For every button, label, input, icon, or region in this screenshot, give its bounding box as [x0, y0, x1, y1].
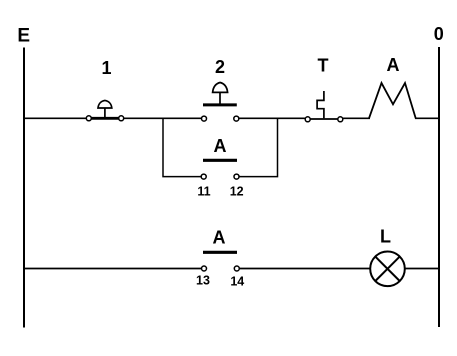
svg-text:A: A [213, 228, 226, 248]
svg-text:11: 11 [197, 185, 210, 199]
switch T (NC with stepped actuator) [305, 91, 343, 122]
wire switch T to coil A [343, 117, 370, 119]
wire branch up right (node before switch T) [240, 118, 278, 176]
left rail E [23, 48, 25, 328]
wire branch down left (node after contact 1) [163, 118, 203, 176]
right rail 0 [438, 47, 440, 327]
wire rung1 left rail to contact 1 [23, 117, 87, 119]
pushbutton 2 (NO, mushroom actuator) [202, 83, 239, 122]
svg-text:13: 13 [196, 274, 210, 288]
wire contact 2 to switch T [239, 117, 306, 119]
svg-text:T: T [318, 56, 329, 76]
wire lamp to right rail [405, 268, 440, 270]
svg-text:L: L [380, 227, 391, 247]
wire contact A 13-14 to lamp [240, 268, 372, 270]
svg-text:A: A [387, 55, 400, 75]
svg-text:12: 12 [230, 185, 244, 199]
svg-text:2: 2 [215, 57, 225, 77]
relay coil A (zigzag) [369, 83, 416, 118]
svg-text:14: 14 [230, 275, 244, 289]
svg-text:A: A [214, 136, 227, 156]
wire coil A to right rail [415, 117, 440, 119]
contact A 13-14 (NO relay contact) [202, 252, 240, 271]
svg-text:1: 1 [101, 58, 111, 78]
pushbutton 1 (NC, mushroom actuator) [86, 100, 123, 120]
contact A 11-12 (NO relay contact) [201, 160, 239, 179]
svg-text:E: E [17, 26, 30, 47]
wire contact 1 to contact 2 [122, 117, 203, 119]
lamp L [370, 251, 405, 286]
svg-text:0: 0 [434, 24, 444, 44]
wire rung2 left rail to contact A 13-14 [23, 268, 203, 270]
